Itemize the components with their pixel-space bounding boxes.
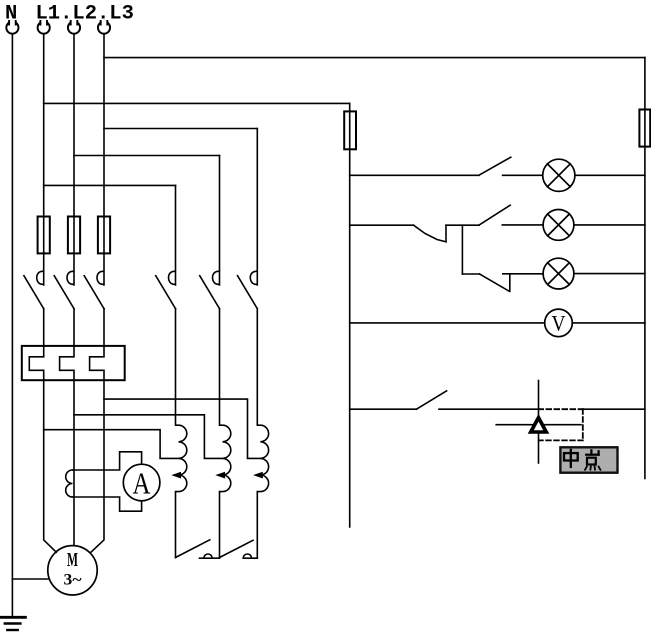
wire L2 vertical top — [73, 34, 75, 285]
svg-text:M: M — [67, 549, 78, 571]
wire L3 branch to right bus — [104, 57, 645, 59]
midpoint label text 点 — [585, 450, 600, 470]
CT2 polarity mark — [215, 472, 225, 479]
thermal overload relay FR box — [22, 346, 125, 380]
midpoint label box — [560, 447, 617, 472]
fuse FU3 — [98, 217, 110, 254]
breaker QS pole 1 blade — [24, 276, 44, 309]
breaker QS pole 2 blade — [54, 276, 74, 309]
terminal N — [6, 20, 18, 34]
contactor KM pole 2 fixed contact — [212, 271, 219, 284]
lamp row 1 wire to lamp — [503, 174, 543, 176]
wire L1 branch to left lamp bus — [44, 102, 350, 104]
neutral row right wire — [583, 408, 645, 410]
voltmeter row left wire — [350, 322, 545, 324]
breaker QS pole 3 fixed contact — [97, 271, 104, 284]
lamp HL2 — [543, 210, 574, 241]
fuse FU2 — [68, 217, 80, 254]
lamp row 1 right wire — [575, 174, 645, 176]
CT1 polarity mark — [171, 472, 181, 479]
terminal L3 — [98, 20, 110, 34]
midpoint label text 中 — [564, 450, 578, 467]
right bus vertical — [644, 58, 646, 479]
lamp row 3 right wire — [574, 273, 645, 275]
fuse FU1 — [38, 217, 50, 254]
neutral row wire to midpoint — [439, 408, 539, 410]
wire L3 branch to contactor pole 3 — [104, 128, 257, 130]
changeover switch link wire — [446, 224, 479, 226]
fuse FU5 right bus — [639, 110, 650, 147]
motor M1 circle — [48, 546, 97, 595]
FR heater phase 2 and wire L2 to motor — [60, 309, 74, 546]
ground — [0, 617, 25, 630]
left lamp bus vertical — [349, 103, 351, 527]
contactor KM pole 3 upper wire — [256, 129, 258, 286]
svg-text:V: V — [552, 311, 566, 336]
switch SA3 blade — [480, 274, 510, 291]
wire bus L3 to CT3 tap — [104, 399, 260, 458]
lamp HL3 — [543, 258, 574, 289]
wire L2 branch to contactor pole 2 — [74, 155, 220, 157]
wire N vertical — [11, 34, 13, 617]
switch SA1 blade — [479, 157, 511, 175]
svg-text:L1.L2.L3: L1.L2.L3 — [36, 3, 134, 26]
lamp row 1 left wire — [350, 174, 479, 176]
lamp row 2 right wire — [574, 224, 645, 226]
neutral row left wire — [350, 408, 417, 410]
terminal L1 — [38, 20, 50, 34]
dashed box top wire — [539, 408, 583, 410]
wire L1 vertical top — [43, 34, 45, 285]
star switch contact 2 fixed — [243, 554, 257, 558]
contactor KM pole 1 blade — [156, 276, 176, 309]
switch SA3 contact tick — [509, 274, 511, 292]
contactor KM pole 3 blade — [238, 276, 258, 309]
wire L3 vertical top — [103, 34, 105, 285]
CT2 primary coil — [220, 309, 231, 558]
midpoint probe triangle — [528, 414, 550, 434]
contactor KM pole 2 upper wire — [219, 156, 221, 286]
FR heater phase 1 and wire L1 to motor — [29, 309, 56, 553]
lamp row 2 left wire — [350, 224, 414, 226]
contactor KM pole 1 fixed contact — [168, 271, 175, 284]
midpoint horizontal wire — [496, 424, 581, 426]
CT3 polarity mark — [253, 472, 263, 479]
midpoint vertical wire — [538, 381, 540, 464]
contactor KM pole 3 fixed contact — [250, 271, 257, 284]
breaker QS pole 3 blade — [84, 276, 104, 309]
voltmeter row right wire — [572, 322, 645, 324]
FR heater phase 3 and wire L3 to motor — [90, 309, 104, 553]
ammeter CT secondary coil — [66, 470, 73, 497]
wire CT secondary top to ammeter — [73, 452, 142, 470]
switch SA5 blade — [417, 391, 447, 409]
CT1 primary coil — [176, 309, 187, 558]
wire motor frame to N — [12, 578, 47, 580]
fuse FU4 left bus — [344, 111, 356, 149]
changeover switch lower blade — [414, 225, 447, 242]
breaker QS pole 2 fixed contact — [67, 271, 74, 284]
star switch contact 1 fixed — [200, 554, 220, 558]
lamp row 3 wire to lamp — [503, 273, 543, 275]
star switch contact 2 blade — [220, 540, 254, 557]
lamp row 3 stub wire — [462, 273, 479, 275]
svg-text:3~: 3~ — [64, 572, 83, 589]
contactor KM pole 2 blade — [200, 276, 220, 309]
switch SA2 blade — [479, 205, 510, 225]
CT3 primary coil — [257, 309, 268, 559]
terminal L2 — [68, 20, 80, 34]
star switch contact 1 blade — [176, 540, 210, 558]
ammeter PA circle — [123, 464, 160, 501]
midpoint probe triangle inner — [534, 422, 543, 431]
dashed box bottom edge — [540, 439, 583, 441]
wire CT secondary bottom to ammeter — [73, 497, 142, 511]
wire bus L2 to CT2 tap — [74, 415, 223, 459]
changeover switch vertical link — [461, 225, 463, 274]
lamp row 2 wire to lamp — [502, 224, 543, 226]
breaker QS pole 1 fixed contact — [37, 271, 44, 284]
wire L1 branch to contactor pole 1 — [44, 184, 176, 186]
voltmeter PV circle — [545, 309, 573, 337]
changeover switch lower contact tick — [445, 225, 447, 242]
wire bus L1 to CT1 tap — [44, 430, 179, 459]
contactor KM pole 1 upper wire — [175, 185, 177, 285]
svg-text:A: A — [133, 466, 151, 501]
dashed box right edge — [582, 409, 584, 440]
lamp HL1 — [543, 159, 575, 191]
